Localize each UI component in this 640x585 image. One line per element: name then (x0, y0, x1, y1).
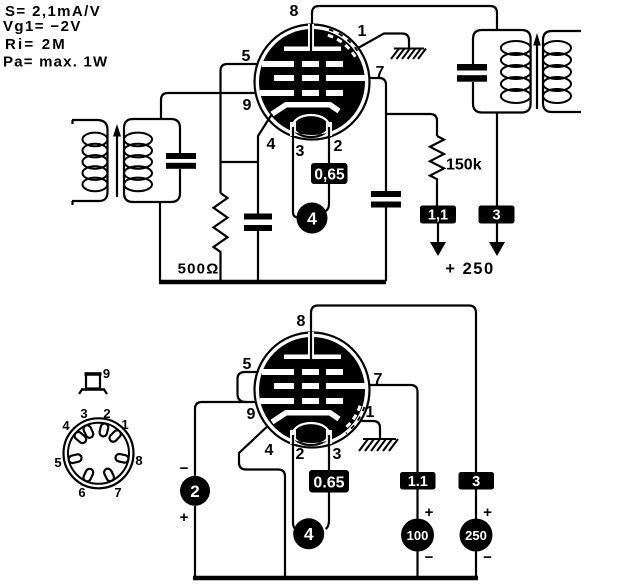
svg-text:0,65: 0,65 (314, 167, 345, 184)
svg-text:4: 4 (307, 209, 317, 229)
wire: pin 8 to top rail to output tank (312, 6, 497, 30)
socket outer circle (64, 418, 134, 488)
output transformer primary winding (501, 41, 531, 103)
wire: pin 7 to box 1.1 (bottom) (345, 385, 418, 472)
svg-text:500Ω: 500Ω (178, 261, 220, 278)
socket pin 2 (99, 423, 109, 437)
svg-text:3: 3 (333, 446, 342, 463)
output tank frame (473, 30, 531, 113)
wire: pin 9 to input tank top (161, 93, 281, 119)
supply arrow below 1,1 (437, 224, 439, 244)
wire: pin 5 to cathode network vertical (221, 64, 282, 193)
measurement box 0,65 (V1 heater current) (311, 163, 348, 184)
svg-text:100: 100 (407, 528, 429, 543)
socket pin 4 (73, 430, 88, 444)
ground symbol (top circuit) (391, 49, 426, 60)
wire: output tank bottom to box 3 (496, 113, 498, 207)
svg-text:4: 4 (304, 524, 314, 544)
svg-text:5: 5 (54, 455, 61, 470)
svg-text:9: 9 (247, 406, 256, 423)
coupling arrow (input transformer) (116, 135, 118, 197)
measurement box 3 (bottom) (459, 472, 495, 490)
svg-text:−: − (425, 549, 434, 566)
socket inner circle (68, 423, 129, 484)
output transformer secondary spine and leads (543, 31, 581, 112)
wire: C3 to rail (385, 208, 387, 282)
wire: heater pin 3 to supply circle (293, 127, 298, 218)
svg-text:3: 3 (492, 208, 500, 224)
wire: heater pin 3 upper (bottom tube, right) (328, 435, 330, 470)
input transformer primary winding (83, 133, 108, 192)
supply arrow below 3 (496, 224, 498, 244)
battery circle 250 (460, 519, 493, 552)
ground rail (top circuit) (159, 280, 386, 285)
resistor 500 ohm (214, 193, 228, 281)
svg-text:6: 6 (78, 485, 85, 500)
wire: pin 5 jumper (bottom) (238, 372, 281, 402)
wire: box 1.1 to circle 100 (416, 490, 418, 519)
svg-text:8: 8 (135, 453, 142, 468)
svg-text:4: 4 (265, 442, 274, 459)
top cap symbol (86, 374, 100, 389)
svg-text:2: 2 (103, 406, 110, 421)
battery circle 100 (401, 519, 434, 552)
socket pin 5 (68, 454, 82, 464)
svg-text:Ri= 2M: Ri= 2M (5, 36, 67, 53)
wire: heater pin 3 lower (326, 493, 330, 530)
svg-text:+: + (483, 504, 492, 521)
wire: heater pin 2 lower part (325, 184, 330, 212)
tube V2 (255, 332, 370, 448)
supply circle 4 (heater voltage, top) (297, 203, 328, 234)
svg-text:9: 9 (103, 366, 110, 381)
svg-text:8: 8 (290, 3, 299, 20)
svg-text:2: 2 (190, 482, 199, 501)
svg-text:5: 5 (242, 48, 251, 65)
supply circle 4 (bottom) (293, 518, 324, 549)
svg-text:250: 250 (465, 528, 487, 543)
wire: pin 4 to rail (bottom) (239, 422, 285, 576)
wire: input tank bottom to rail (159, 202, 161, 281)
svg-text:−: − (180, 460, 189, 477)
svg-text:+: + (425, 504, 434, 521)
wire: pin 8 top rail to right side (bottom circuit) (311, 306, 476, 473)
input transformer secondary winding (124, 133, 152, 192)
svg-text:Vg1= −2V: Vg1= −2V (3, 18, 82, 35)
svg-text:3: 3 (472, 474, 480, 490)
measurement box 0.65 (bottom) (309, 470, 349, 493)
svg-text:1: 1 (366, 404, 375, 421)
wire: cathode junction horizontal (221, 161, 259, 163)
wire: pin 1 to ground (bottom) (358, 421, 380, 439)
svg-text:7: 7 (114, 485, 121, 500)
measurement box 3 (top) (479, 206, 515, 224)
measurement box 1,1 (420, 206, 456, 224)
resistor 150k (430, 136, 444, 206)
coupling arrow (output transformer) (536, 45, 538, 109)
svg-text:3: 3 (80, 406, 87, 421)
input tank frame (124, 119, 180, 202)
svg-text:7: 7 (376, 64, 385, 81)
svg-text:1.1: 1.1 (408, 474, 428, 490)
socket pin 3 (82, 424, 94, 439)
input tank capacitor C1 (166, 153, 196, 159)
wire: pin 1 to ground (358, 34, 409, 49)
wire: pin 4 diagonal to bypass capacitor (258, 114, 272, 214)
svg-text:9: 9 (243, 97, 252, 114)
svg-text:Pa= max. 1W: Pa= max. 1W (3, 54, 108, 71)
svg-text:5: 5 (243, 356, 252, 373)
svg-text:2: 2 (334, 138, 343, 155)
wire: pin 9 to battery circle 2 (195, 402, 280, 476)
svg-text:7: 7 (374, 371, 383, 388)
wire: heater pin 2 (bottom tube, left) (293, 435, 296, 530)
output transformer secondary winding (543, 41, 571, 103)
tube V1 internal shield dashed arc (white) (328, 35, 356, 57)
wire: circle 2 to rail (194, 506, 196, 576)
wire: C2 to rail (257, 231, 259, 281)
socket pin 7 (103, 467, 115, 482)
svg-text:4: 4 (62, 418, 70, 433)
svg-text:1: 1 (121, 417, 128, 432)
tube V2 shield dashed arc (black outer) (346, 407, 364, 433)
anode bypass capacitor C3 (371, 191, 401, 197)
measurement box 1.1 (bottom) (400, 472, 436, 490)
tube V2 internal shield dashed arc (white) (343, 406, 360, 430)
input primary lead end hooks (71, 120, 73, 124)
socket pin 6 (82, 468, 94, 483)
tube V1 (255, 24, 370, 140)
svg-text:8: 8 (297, 313, 306, 330)
ground rail (bottom circuit) (193, 576, 478, 581)
cathode bypass capacitor C2 (244, 214, 272, 220)
ground symbol (bottom circuit) (359, 439, 398, 451)
svg-text:−: − (483, 549, 492, 566)
wire: circle 100 to rail (416, 552, 418, 577)
output tank capacitor C4 (457, 64, 487, 71)
wire: branch to 150k resistor (386, 114, 437, 136)
svg-text:150k: 150k (446, 157, 482, 174)
wire: box 3 to circle 250 (475, 490, 477, 519)
input transformer primary leads and spine (72, 120, 108, 201)
wire: heater pin 2 upper part (328, 127, 330, 163)
battery circle 2 (grid bias) (180, 476, 210, 506)
svg-text:2: 2 (296, 446, 305, 463)
svg-text:4: 4 (267, 136, 276, 153)
svg-text:0.65: 0.65 (313, 475, 344, 492)
tube V1 shield dashed arc (black outer) (329, 30, 360, 55)
svg-text:3: 3 (296, 143, 305, 160)
socket pin 8 (115, 453, 129, 463)
svg-text:+: + (180, 509, 189, 526)
socket pin 1 (108, 429, 122, 444)
svg-text:1: 1 (358, 23, 367, 40)
svg-text:1,1: 1,1 (428, 208, 448, 224)
svg-text:+ 250: + 250 (445, 260, 494, 278)
wire: pin 7 to anode bypass (345, 78, 386, 191)
wire: circle 250 to rail (475, 552, 477, 577)
